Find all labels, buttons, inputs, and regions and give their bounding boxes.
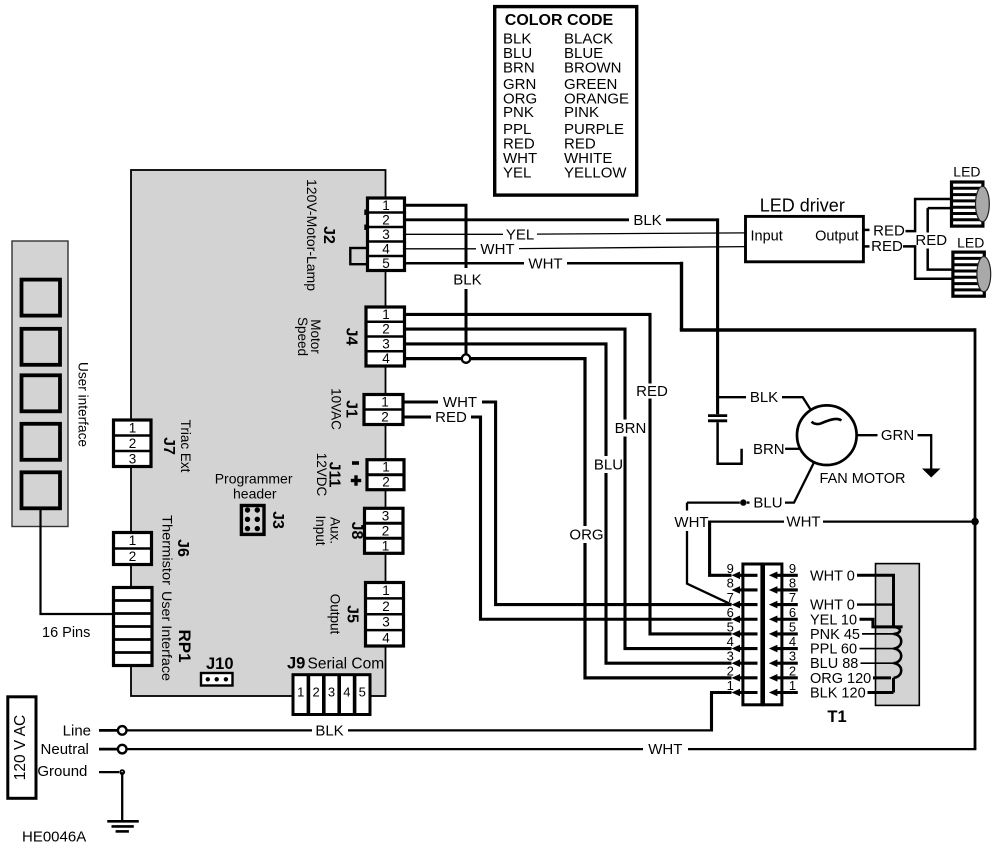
- svg-text:1: 1: [727, 678, 734, 693]
- svg-text:3: 3: [382, 336, 390, 351]
- svg-text:1: 1: [789, 678, 796, 693]
- svg-text:Input: Input: [313, 515, 328, 545]
- svg-text:YELLOW: YELLOW: [564, 165, 627, 182]
- svg-text:1: 1: [129, 420, 137, 435]
- svg-text:Serial Com: Serial Com: [308, 656, 385, 673]
- svg-text:User Interface: User Interface: [159, 591, 174, 681]
- svg-text:BLU 88: BLU 88: [810, 656, 858, 672]
- svg-text:FAN MOTOR: FAN MOTOR: [820, 471, 906, 487]
- svg-text:WHT 0: WHT 0: [810, 568, 855, 584]
- svg-text:Speed: Speed: [295, 317, 310, 356]
- svg-text:1: 1: [382, 538, 390, 553]
- svg-text:User interface: User interface: [76, 362, 91, 447]
- svg-text:PNK 45: PNK 45: [810, 627, 860, 643]
- svg-text:12VDC: 12VDC: [314, 453, 329, 497]
- svg-text:COLOR CODE: COLOR CODE: [505, 12, 614, 29]
- svg-text:WHT: WHT: [674, 514, 708, 531]
- svg-text:1: 1: [382, 583, 390, 598]
- svg-text:LED driver: LED driver: [760, 196, 845, 216]
- svg-text:Output: Output: [815, 229, 859, 245]
- svg-text:4: 4: [789, 634, 796, 649]
- svg-text:2: 2: [129, 549, 137, 564]
- svg-text:1: 1: [129, 533, 137, 548]
- svg-text:2: 2: [789, 663, 796, 678]
- svg-text:3: 3: [382, 227, 390, 242]
- svg-text:BLK: BLK: [453, 272, 481, 289]
- svg-text:Neutral: Neutral: [41, 741, 89, 758]
- svg-text:J5: J5: [344, 605, 361, 623]
- svg-text:7: 7: [789, 590, 796, 605]
- svg-text:J4: J4: [343, 328, 360, 346]
- svg-text:RP1: RP1: [175, 629, 194, 662]
- svg-text:Line: Line: [63, 722, 91, 739]
- svg-text:PPL 60: PPL 60: [810, 642, 857, 658]
- svg-text:RED: RED: [636, 383, 668, 400]
- svg-text:1: 1: [297, 684, 304, 699]
- svg-text:2: 2: [727, 663, 734, 678]
- svg-text:4: 4: [382, 241, 390, 256]
- svg-text:2: 2: [129, 436, 137, 451]
- svg-text:WHT: WHT: [786, 514, 820, 531]
- svg-text:J7: J7: [160, 437, 177, 455]
- svg-text:10VAC: 10VAC: [329, 388, 344, 430]
- svg-text:3: 3: [789, 649, 796, 664]
- svg-text:BLU: BLU: [753, 495, 782, 512]
- svg-text:6: 6: [727, 605, 734, 620]
- svg-text:1: 1: [382, 460, 390, 475]
- svg-text:Ground: Ground: [37, 763, 87, 780]
- svg-text:Output: Output: [328, 594, 343, 635]
- svg-text:7: 7: [727, 590, 734, 605]
- svg-text:WHT 0: WHT 0: [810, 598, 855, 614]
- svg-text:YEL 10: YEL 10: [810, 612, 857, 628]
- svg-text:16 Pins: 16 Pins: [42, 625, 90, 641]
- svg-text:2: 2: [382, 523, 390, 538]
- svg-text:BLU: BLU: [594, 457, 623, 474]
- svg-text:Programmer: Programmer: [215, 471, 293, 487]
- svg-text:3: 3: [727, 649, 734, 664]
- svg-text:header: header: [233, 486, 277, 502]
- svg-text:2: 2: [312, 684, 319, 699]
- svg-text:3: 3: [129, 451, 137, 466]
- svg-text:J2: J2: [320, 226, 337, 244]
- svg-text:RED: RED: [871, 238, 903, 255]
- svg-text:8: 8: [727, 575, 734, 590]
- svg-text:2: 2: [382, 212, 390, 227]
- svg-text:RED: RED: [915, 232, 947, 249]
- svg-text:HE0046A: HE0046A: [22, 829, 86, 846]
- svg-text:6: 6: [789, 605, 796, 620]
- svg-text:BRN: BRN: [503, 59, 535, 76]
- svg-text:Triac Ext: Triac Ext: [178, 420, 193, 473]
- svg-text:4: 4: [727, 634, 734, 649]
- svg-text:9: 9: [789, 561, 796, 576]
- svg-text:3: 3: [328, 684, 335, 699]
- svg-text:GRN: GRN: [881, 427, 914, 444]
- svg-text:Thermistor: Thermistor: [160, 515, 175, 586]
- svg-text:4: 4: [343, 684, 350, 699]
- svg-text:ORG 120: ORG 120: [810, 671, 871, 687]
- svg-text:5: 5: [789, 619, 796, 634]
- svg-text:ORG: ORG: [569, 527, 603, 544]
- svg-text:PNK: PNK: [503, 104, 534, 121]
- svg-text:LED: LED: [957, 235, 984, 251]
- svg-text:5: 5: [359, 684, 366, 699]
- svg-text:8: 8: [789, 575, 796, 590]
- svg-text:T1: T1: [827, 708, 846, 726]
- svg-text:2: 2: [382, 599, 390, 614]
- svg-text:WHT: WHT: [648, 741, 682, 758]
- svg-text:120 V AC: 120 V AC: [12, 715, 29, 781]
- svg-text:9: 9: [727, 561, 734, 576]
- svg-text:WHT: WHT: [528, 255, 562, 272]
- svg-text:BRN: BRN: [615, 420, 647, 437]
- svg-text:2: 2: [381, 410, 389, 425]
- svg-text:J9: J9: [287, 655, 305, 673]
- svg-text:120V-Motor-Lamp: 120V-Motor-Lamp: [304, 179, 319, 291]
- svg-text:PINK: PINK: [564, 104, 599, 121]
- svg-text:BLK: BLK: [315, 722, 343, 739]
- svg-text:3: 3: [382, 615, 390, 630]
- svg-text:BLK 120: BLK 120: [810, 686, 866, 702]
- svg-text:Aux.: Aux.: [328, 517, 343, 544]
- svg-text:Input: Input: [751, 229, 783, 245]
- svg-text:WHT: WHT: [480, 241, 514, 258]
- svg-text:4: 4: [382, 351, 390, 366]
- svg-text:YEL: YEL: [503, 165, 531, 182]
- svg-text:1: 1: [381, 395, 389, 410]
- svg-text:4: 4: [382, 631, 390, 646]
- svg-text:J6: J6: [174, 539, 191, 557]
- svg-text:2: 2: [382, 322, 390, 337]
- svg-text:BLK: BLK: [633, 212, 661, 229]
- svg-text:BRN: BRN: [753, 441, 785, 458]
- svg-text:BLK: BLK: [750, 389, 778, 406]
- svg-text:J10: J10: [206, 655, 234, 673]
- svg-text:3: 3: [382, 508, 390, 523]
- svg-text:5: 5: [727, 619, 734, 634]
- svg-text:J1: J1: [343, 400, 360, 418]
- svg-text:RED: RED: [435, 409, 467, 426]
- svg-text:LED: LED: [953, 164, 980, 180]
- svg-text:1: 1: [382, 307, 390, 322]
- svg-text:BROWN: BROWN: [564, 59, 622, 76]
- svg-text:J3: J3: [269, 511, 286, 529]
- svg-text:2: 2: [382, 475, 390, 490]
- svg-text:5: 5: [382, 256, 390, 271]
- svg-text:1: 1: [382, 198, 390, 213]
- svg-text:J8: J8: [348, 522, 365, 540]
